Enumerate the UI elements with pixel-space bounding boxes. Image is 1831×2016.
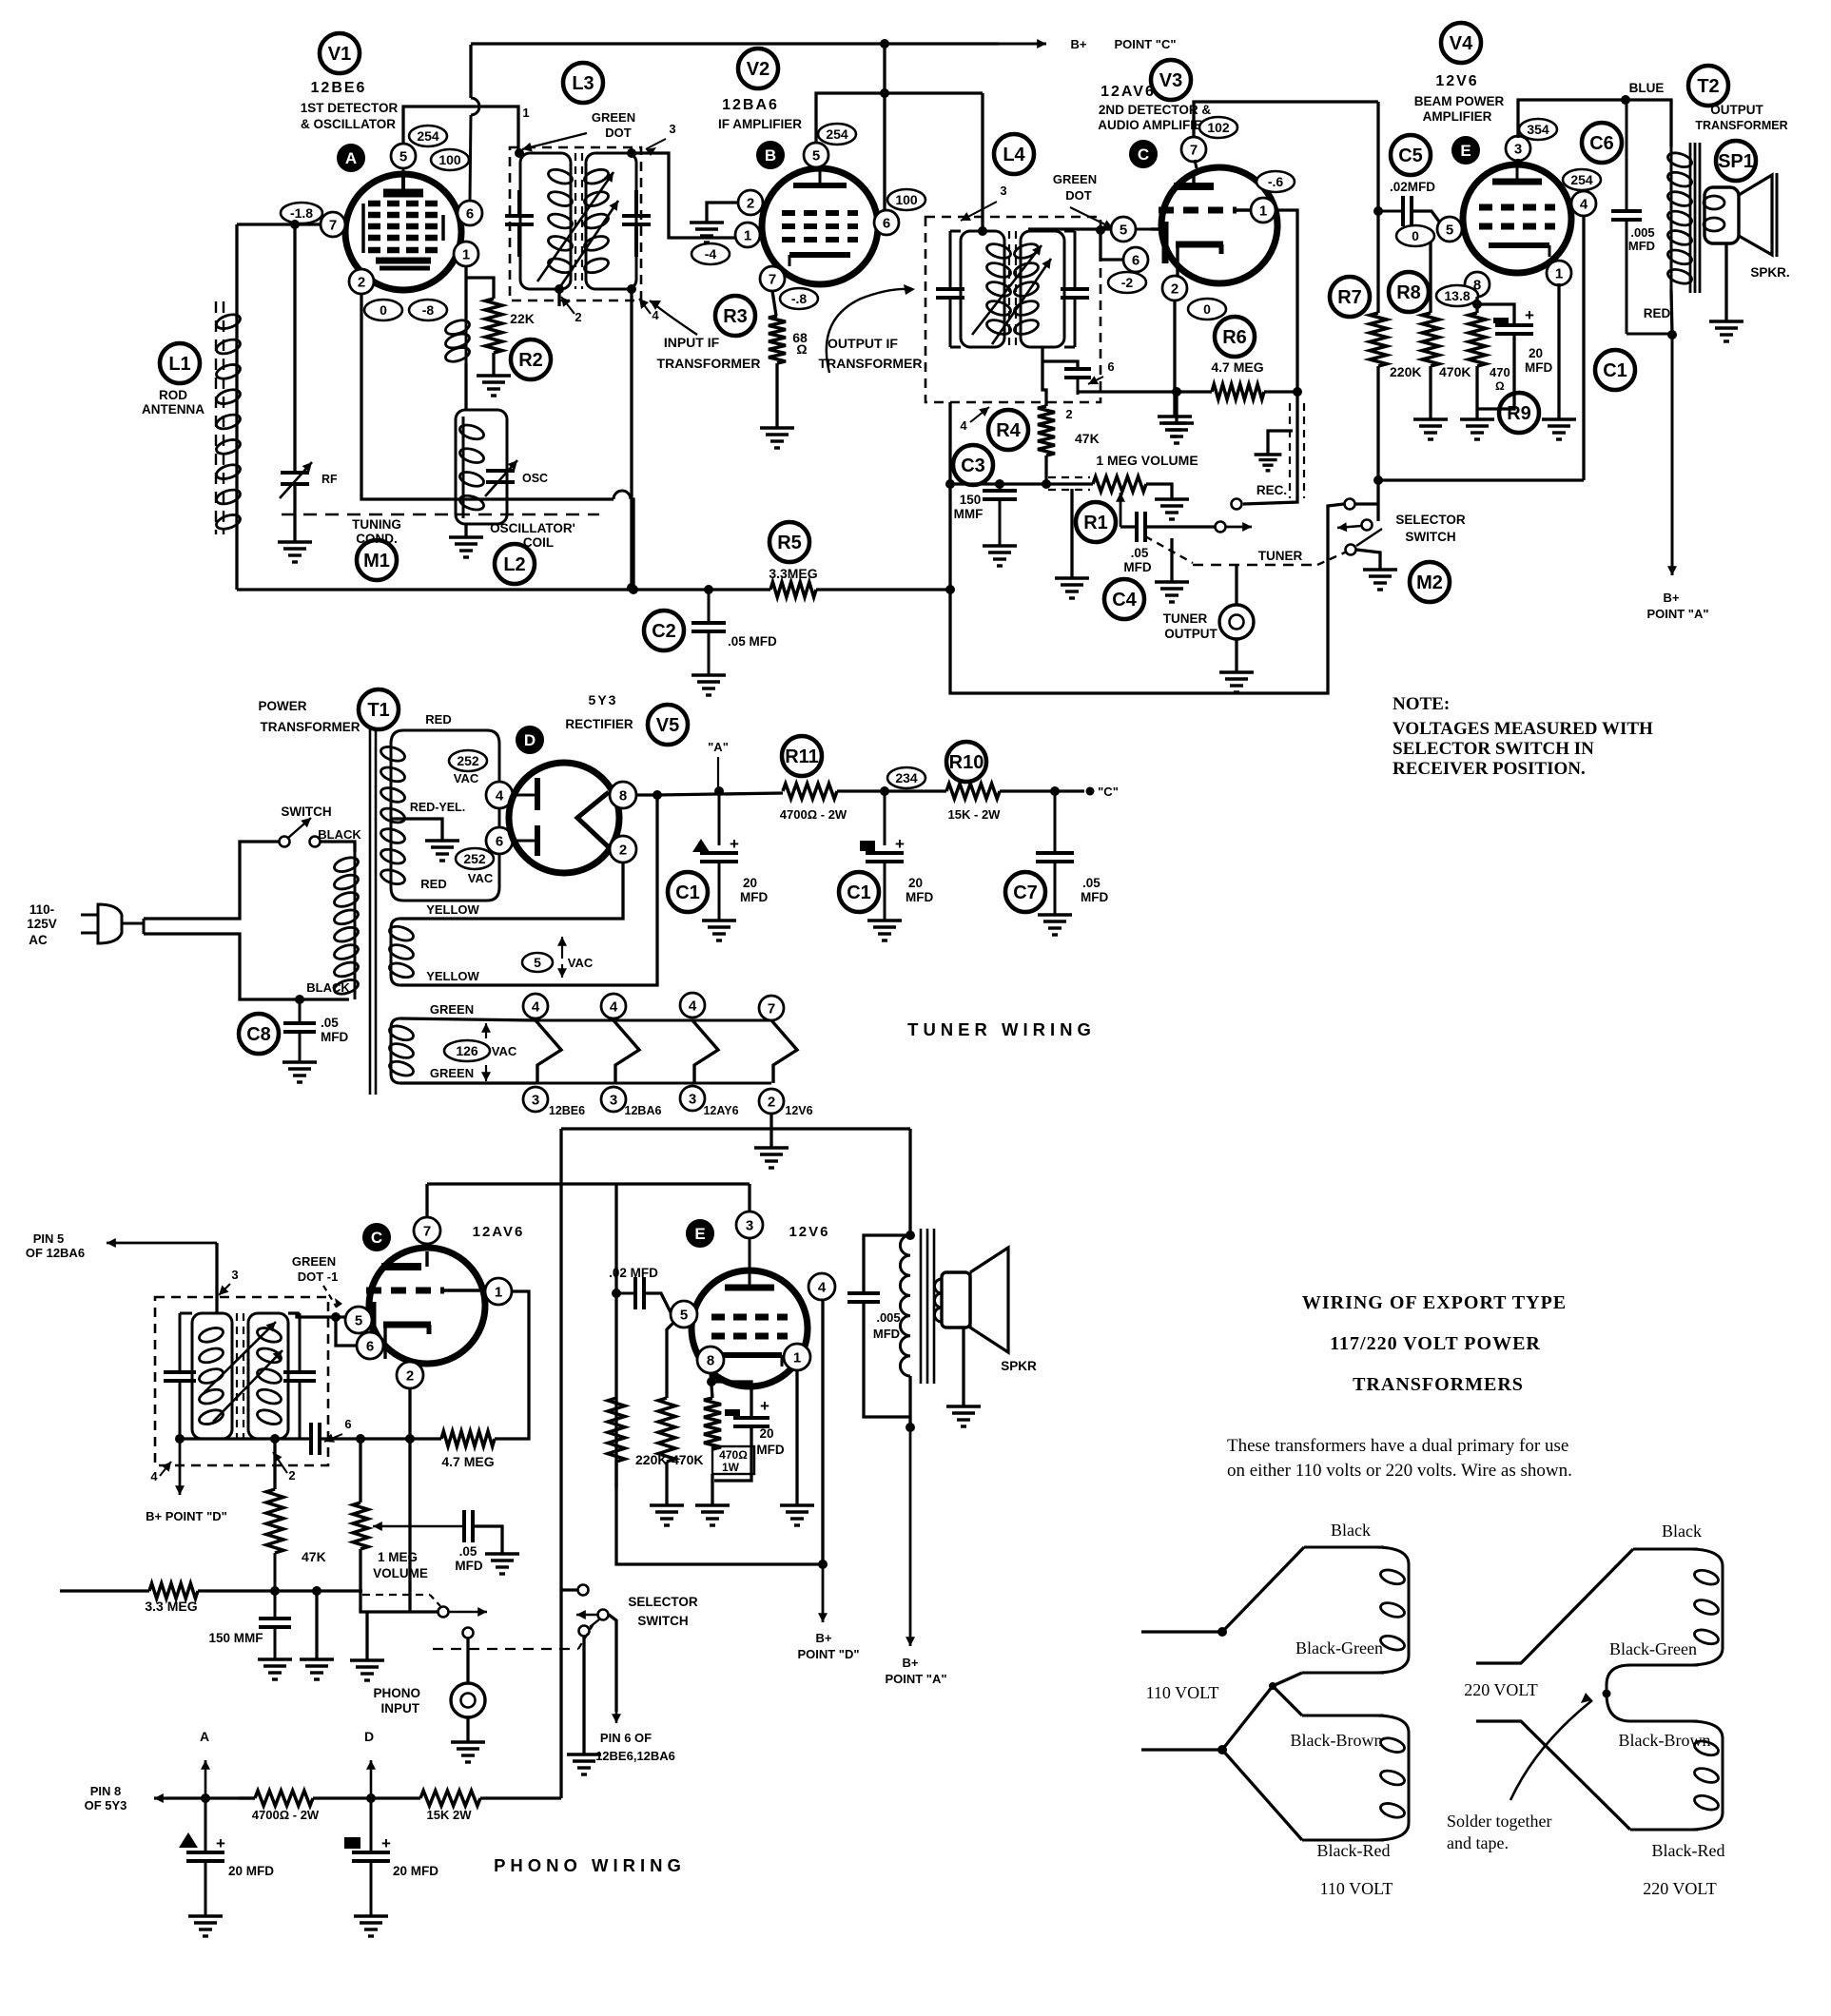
ground below C8 — [282, 1062, 317, 1082]
wire blue down — [1666, 100, 1671, 146]
svg-text:470Ω: 470Ω — [719, 1448, 748, 1462]
wire yellow bottom — [400, 795, 657, 985]
svg-text:5: 5 — [1120, 222, 1127, 238]
wire 3.3MEG to pot — [198, 1589, 362, 1592]
tube phono 12AV6 — [359, 1248, 485, 1364]
tube phono 12V6 — [691, 1270, 808, 1386]
arrow 3 phono IF — [219, 1284, 230, 1295]
svg-text:C3: C3 — [961, 456, 985, 476]
label and tape — [1447, 1833, 1509, 1852]
label 3.3 MEG phono — [145, 1599, 197, 1614]
wire cathode to osc coil — [464, 363, 467, 410]
label Black-Brown right — [1619, 1731, 1711, 1750]
svg-text:110 VOLT: 110 VOLT — [1320, 1879, 1393, 1898]
svg-text:12BA6: 12BA6 — [722, 97, 779, 113]
tube V4 label — [1441, 23, 1481, 63]
point C dot — [1086, 787, 1094, 795]
pin 2 of V5 — [610, 836, 636, 863]
svg-text:V5: V5 — [656, 715, 679, 736]
svg-text:6: 6 — [366, 1338, 374, 1354]
svg-text:OUTPUT IF: OUTPUT IF — [828, 336, 898, 351]
capacitor C1a — [700, 791, 738, 921]
coil T1 yellow box — [391, 919, 400, 985]
voltage 254 at V4 — [1563, 169, 1601, 190]
wire phono pin3 stub — [748, 1184, 750, 1271]
voltage -.8 at V2 — [780, 288, 818, 309]
label VAC top — [454, 771, 479, 785]
svg-text:252: 252 — [463, 851, 486, 866]
wire phono opt top — [908, 1129, 911, 1235]
svg-text:6: 6 — [466, 205, 474, 222]
voltage 252 bottom — [456, 848, 494, 869]
svg-text:2: 2 — [358, 274, 365, 290]
svg-text:M1: M1 — [363, 551, 390, 572]
capacitor R1 .05MFD — [1137, 512, 1145, 542]
junction phono B+ D — [819, 1560, 828, 1569]
svg-text:7: 7 — [329, 217, 337, 233]
label TUNER — [1258, 549, 1303, 563]
junction on B+ bus — [881, 40, 889, 48]
pin 4 heater 12BA6 — [601, 994, 626, 1018]
svg-text:Black-Red: Black-Red — [1652, 1841, 1725, 1860]
capacitor L3 secondary — [622, 190, 651, 257]
label Solder together — [1447, 1812, 1551, 1831]
arrow green dot L3 — [522, 133, 587, 152]
ground center tap — [425, 841, 459, 861]
arrow L4 tuning 2 — [992, 259, 1051, 344]
heater 12BE6 — [536, 1020, 561, 1083]
plug 110V — [81, 904, 144, 943]
svg-text:R4: R4 — [996, 420, 1021, 441]
capacitor phono .005MFD — [847, 1235, 910, 1417]
label 12AV6 phono — [473, 1224, 525, 1240]
resistor R3 68 ohm — [769, 316, 786, 363]
label 2 phono — [288, 1468, 295, 1483]
svg-text:150: 150 — [960, 493, 982, 507]
resistor R4 label — [988, 410, 1028, 450]
svg-text:SELECTOR: SELECTOR — [1395, 513, 1466, 527]
wire yellow top — [400, 863, 623, 919]
speaker phono frame — [942, 1272, 970, 1328]
wire R9 top — [1475, 297, 1478, 313]
coil phono IF secondary — [256, 1326, 283, 1427]
svg-text:TUNER: TUNER — [1163, 611, 1208, 626]
label B+ phono D — [797, 1631, 859, 1661]
export winding 1 bottom lead — [1302, 1672, 1384, 1675]
svg-text:Black: Black — [1662, 1522, 1702, 1541]
svg-text:YELLOW: YELLOW — [426, 902, 479, 917]
svg-text:L4: L4 — [1003, 145, 1025, 165]
resistor R6 4.7MEG — [1212, 384, 1264, 399]
svg-text:102: 102 — [1207, 120, 1230, 135]
svg-text:+: + — [1525, 306, 1534, 324]
svg-text:MFD: MFD — [1123, 560, 1151, 574]
svg-text:3: 3 — [532, 1092, 539, 1108]
junction rail 745 — [705, 586, 713, 594]
svg-text:OUTPUT: OUTPUT — [1164, 627, 1217, 641]
svg-text:12V6: 12V6 — [789, 1224, 829, 1240]
svg-text:VOLTAGES MEASURED WITH: VOLTAGES MEASURED WITH — [1393, 719, 1653, 739]
svg-text:L1: L1 — [168, 354, 190, 375]
pin 4 of V4 — [1571, 191, 1596, 216]
wire rail to tuner branch — [950, 504, 1344, 693]
svg-text:MFD: MFD — [906, 890, 933, 904]
resistor R10 15K — [946, 784, 1000, 799]
label SPKR. — [1750, 265, 1789, 280]
svg-text:C4: C4 — [1112, 590, 1137, 611]
label plus phono cap — [760, 1397, 769, 1415]
coil L3 label — [563, 63, 603, 103]
arrow 5vac down — [557, 964, 567, 978]
speaker coil loops — [1704, 196, 1724, 231]
wire L4 primary top — [981, 93, 984, 231]
svg-text:20 MFD: 20 MFD — [228, 1864, 274, 1878]
svg-text:1: 1 — [495, 1284, 502, 1300]
junction C1a — [715, 787, 724, 796]
svg-text:20: 20 — [908, 876, 923, 890]
capacitor C7 label — [1005, 872, 1045, 912]
svg-text:MFD: MFD — [455, 1559, 482, 1573]
pin 8 of phono 12V6 — [697, 1347, 724, 1373]
ground below R3 — [760, 428, 794, 448]
node D marker — [516, 727, 543, 753]
wire AVC rail — [237, 588, 770, 591]
arrow phono IF tuning 1 — [205, 1322, 276, 1392]
svg-text:PIN 8: PIN 8 — [90, 1784, 122, 1798]
wire 110 bottom diagonal — [1141, 1750, 1302, 1840]
svg-text:DOT -1: DOT -1 — [298, 1270, 339, 1284]
ground REC shield — [1255, 455, 1282, 471]
svg-text:5: 5 — [534, 955, 541, 970]
svg-text:1: 1 — [462, 246, 470, 262]
svg-text:C6: C6 — [1589, 133, 1614, 154]
arrow selector wiper — [1337, 522, 1361, 532]
svg-text:-.8: -.8 — [791, 291, 808, 306]
svg-text:AMPLIFIER: AMPLIFIER — [1423, 109, 1492, 124]
voltage 100 at V1 pin6 — [431, 149, 469, 170]
svg-text:-.6: -.6 — [1268, 174, 1284, 189]
label 470 ohm box — [712, 1446, 754, 1474]
pin 4 heater 12BE6 — [523, 994, 548, 1018]
wire volume line — [950, 482, 1093, 485]
wire speaker to ground — [1724, 243, 1727, 321]
wire pin2 to rail — [631, 499, 633, 588]
wire selector feed — [1355, 502, 1378, 505]
label 4.7 MEG — [1211, 359, 1263, 375]
junction rail left — [946, 480, 955, 489]
label AMPLIFIER V4 — [1423, 109, 1492, 124]
svg-text:3: 3 — [1000, 184, 1006, 198]
ground below C7 — [1038, 915, 1072, 935]
arrow D marker — [366, 1760, 376, 1798]
label .02 MFD phono — [609, 1266, 658, 1280]
pin 2 of phono 12AV6 — [397, 1362, 423, 1388]
svg-text:2: 2 — [1065, 407, 1072, 421]
svg-text:L2: L2 — [503, 554, 525, 575]
wire tuner jack — [1235, 565, 1237, 605]
junction L4 primary top — [979, 227, 987, 236]
label 2ND DETECTOR & — [1099, 103, 1212, 117]
wire T2 primary bottom — [1671, 290, 1672, 335]
wire V1 pin1 down — [464, 266, 467, 319]
label SWITCH — [281, 804, 331, 819]
pin 3 heater 12BA6 — [601, 1087, 626, 1112]
wire wiper to R1 cap — [1120, 525, 1137, 528]
wire hop over — [614, 491, 631, 499]
svg-text:8: 8 — [619, 787, 627, 804]
wire R3 to ground — [775, 363, 778, 428]
svg-text:MFD: MFD — [873, 1327, 900, 1341]
wire 220 lead bottom — [1476, 1721, 1630, 1830]
svg-text:D: D — [364, 1729, 374, 1744]
tube V4 12V6 — [1463, 165, 1571, 273]
arrow L3 tuning 1 — [537, 172, 614, 281]
resistor R9 470 ohm — [1469, 313, 1486, 366]
tube V5 label — [648, 705, 688, 745]
wire phono B rail — [238, 1796, 255, 1799]
junction 150MMF — [271, 1587, 280, 1596]
svg-text:4: 4 — [652, 308, 659, 322]
voltage 13.8 at V4 — [1436, 285, 1478, 306]
label 20 MFD phono — [756, 1426, 784, 1457]
svg-text:1 MEG VOLUME: 1 MEG VOLUME — [1096, 453, 1198, 468]
svg-text:BEAM POWER: BEAM POWER — [1414, 94, 1505, 108]
label PIN 6 OF — [600, 1731, 652, 1745]
label Black-Red left — [1317, 1841, 1391, 1860]
arrow output IF — [827, 284, 915, 373]
svg-text:TUNER: TUNER — [1258, 549, 1303, 563]
label 220 VOLT right — [1464, 1680, 1538, 1699]
svg-text:YELLOW: YELLOW — [426, 969, 479, 983]
wire RF trimmer to ground — [293, 484, 296, 542]
wire V3 pin6 tie — [1101, 231, 1123, 260]
heater 12BA6 — [614, 1020, 639, 1083]
label 22K — [510, 311, 535, 326]
pin 5 of phono 12V6 — [671, 1301, 697, 1328]
svg-text:2: 2 — [288, 1468, 295, 1483]
svg-text:C8: C8 — [246, 1024, 271, 1045]
tube L1 label — [160, 343, 200, 383]
svg-text:220 VOLT: 220 VOLT — [1643, 1879, 1717, 1898]
svg-text:254: 254 — [1570, 172, 1593, 187]
ground below 150MMF — [258, 1659, 292, 1679]
wire V4 pin1 to ground — [1557, 283, 1560, 419]
svg-text:Ω: Ω — [1495, 379, 1505, 393]
arrow B+ point C — [999, 39, 1046, 48]
label B+ POINT C — [1071, 37, 1177, 51]
label PHONO INPUT — [373, 1686, 420, 1716]
junction R4 volume — [1042, 480, 1051, 489]
capacitor C3 label — [953, 445, 993, 485]
junction L4 secondary top — [1097, 226, 1105, 235]
wire stem upper ground — [1175, 392, 1178, 423]
arrow wiper line — [1226, 522, 1252, 532]
svg-text:470K: 470K — [1439, 364, 1471, 379]
svg-text:12AV6: 12AV6 — [1101, 84, 1156, 100]
label 4.7MEG phono — [441, 1454, 494, 1469]
svg-text:254: 254 — [417, 128, 439, 144]
svg-text:INPUT IF: INPUT IF — [664, 335, 720, 350]
wire HV center tap — [391, 819, 442, 841]
voltage 252 top — [449, 750, 487, 771]
label Black-Green left — [1295, 1638, 1383, 1657]
svg-text:20: 20 — [1529, 346, 1543, 360]
svg-text:1ST DETECTOR: 1ST DETECTOR — [301, 101, 399, 115]
wire 15K to selector — [480, 1796, 561, 1799]
svg-text:C1: C1 — [847, 882, 871, 903]
label TUNER WIRING — [907, 1019, 1096, 1039]
junction pin8 A node — [653, 791, 662, 800]
coil L4 secondary outline — [1021, 231, 1064, 347]
svg-text:B+ POINT "D": B+ POINT "D" — [146, 1509, 227, 1523]
wire phono sel vertical — [559, 1129, 562, 1798]
label 110 VOLT left — [1146, 1683, 1219, 1702]
svg-text:8: 8 — [707, 1352, 714, 1368]
label TUNER OUTPUT — [1163, 611, 1218, 641]
arrow pin8 5Y3 — [154, 1793, 238, 1803]
wire L3 secondary bottom to AVC rail — [630, 289, 633, 588]
note text — [1393, 694, 1653, 779]
arrow 2 phono — [273, 1452, 287, 1473]
label 20 MFD D — [393, 1864, 438, 1878]
terminal selector bottom — [1346, 545, 1356, 555]
marker square C1b — [860, 841, 875, 851]
wire pot top — [359, 1439, 361, 1502]
capacitor C6 label — [1582, 123, 1622, 163]
pin 3 of V4 — [1506, 136, 1530, 166]
wire heater to ground — [769, 1114, 772, 1148]
svg-text:1: 1 — [744, 227, 751, 243]
label TRANSFORMER input — [657, 356, 761, 371]
label 220 VOLT caption — [1643, 1879, 1717, 1898]
label plus D cap — [381, 1834, 391, 1852]
label .005 MFD — [1628, 225, 1655, 253]
svg-text:1: 1 — [793, 1349, 801, 1366]
svg-text:1: 1 — [522, 106, 529, 120]
coil L3 primary loops — [547, 167, 575, 276]
export winding 4 top lead — [1607, 1694, 1698, 1721]
label 1 at L3 — [522, 106, 529, 120]
label IF AMPLIFIER — [718, 117, 802, 131]
label B+ point A — [1646, 591, 1708, 621]
coil L4 secondary loops — [1013, 242, 1041, 337]
node C marker — [1130, 141, 1157, 167]
speaker phono bumps — [935, 1279, 943, 1322]
label GREEN top — [430, 1002, 474, 1017]
pin 8 of V5 — [610, 782, 636, 808]
arrow 5vac up — [557, 937, 567, 959]
export winding 2 top lead — [1302, 1715, 1384, 1717]
label 6 at L4 — [1107, 359, 1114, 374]
arrow input IF — [650, 300, 697, 335]
capacitor C1a label — [668, 872, 708, 912]
terminal selector mid — [1362, 520, 1373, 531]
pin 3 heater 12BE6 — [523, 1087, 548, 1112]
pin 5 of V2 — [804, 143, 828, 167]
svg-text:OF 5Y3: OF 5Y3 — [85, 1798, 127, 1812]
wire phono pin4 down — [821, 1300, 824, 1564]
svg-text:D: D — [524, 731, 536, 749]
switch contact right — [310, 837, 321, 847]
svg-text:REC.: REC. — [1256, 483, 1287, 497]
svg-text:TRANSFORMER: TRANSFORMER — [657, 356, 761, 371]
svg-text:-1.8: -1.8 — [290, 205, 313, 221]
pin 3 of phono 12V6 — [736, 1212, 763, 1238]
shield dashes volume wire — [1048, 477, 1090, 490]
capacitor 6 phono series — [311, 1423, 320, 1455]
pin 3 heater 12AV6 — [680, 1086, 705, 1111]
wire R4 bottom — [1044, 456, 1047, 484]
junction L3 primary top — [516, 149, 524, 158]
label 20MFD C1a — [740, 876, 768, 904]
ground below R9 — [1460, 419, 1494, 439]
dashed tuner line — [1145, 536, 1347, 565]
svg-text:R3: R3 — [723, 306, 748, 327]
ground below C1a — [702, 921, 736, 940]
capacitor L4 primary — [936, 231, 964, 347]
pin 7 heater 12V6 — [759, 996, 784, 1020]
pin 7 of phono 12AV6 — [414, 1217, 440, 1249]
svg-text:47K: 47K — [302, 1549, 326, 1564]
voltage 254 at V2 — [818, 124, 856, 145]
svg-text:GREEN: GREEN — [430, 1066, 474, 1080]
voltage 0 at V3 pin2 — [1188, 299, 1226, 320]
junction 110 bottom — [1218, 1746, 1227, 1754]
svg-text:C5: C5 — [1398, 145, 1423, 166]
label B+ phono A — [885, 1656, 946, 1686]
label Black-Red right — [1652, 1841, 1725, 1860]
svg-text:7: 7 — [423, 1223, 431, 1239]
svg-text:4: 4 — [150, 1469, 158, 1483]
label 4 at L3 — [652, 308, 659, 322]
label TRANSFORMER output — [819, 356, 923, 371]
coil L4 label — [994, 134, 1034, 174]
arrow 3 L4 — [961, 202, 997, 221]
svg-text:R6: R6 — [1222, 327, 1247, 348]
export winding 4 — [1688, 1721, 1723, 1830]
voltage -2 at V3 — [1108, 272, 1146, 293]
svg-text:.05: .05 — [321, 1016, 339, 1030]
wire V3 pin7 to R7 rail — [1194, 102, 1378, 137]
pin 1 of V1 — [454, 242, 478, 266]
svg-text:12AV6: 12AV6 — [473, 1224, 525, 1240]
resistor R5 label — [769, 522, 809, 562]
svg-text:0: 0 — [380, 302, 387, 318]
label GREEN bottom — [430, 1066, 474, 1080]
label .05 MFD C2 — [728, 634, 777, 649]
label .02MFD — [1390, 180, 1435, 194]
junction B+ drop — [881, 89, 889, 98]
junction pin2 wire — [406, 1435, 415, 1444]
pin 4 of V5 — [486, 782, 513, 808]
resistor phono 3.3MEG — [149, 1583, 198, 1599]
dashed phono wiper link — [362, 1595, 440, 1606]
svg-text:4700Ω - 2W: 4700Ω - 2W — [252, 1808, 320, 1822]
wire ground left C4 stem — [1070, 489, 1073, 578]
terminal phono sel mid — [598, 1610, 609, 1620]
svg-text:T2: T2 — [1697, 76, 1719, 97]
label AUDIO AMPLIFIER — [1098, 118, 1212, 132]
tube V3 12AV6 — [1151, 167, 1277, 283]
svg-text:125V: 125V — [27, 917, 57, 931]
svg-text:4.7 MEG: 4.7 MEG — [1211, 359, 1263, 375]
label dual primary text2 — [1227, 1461, 1572, 1481]
arrow 6 L4 — [1088, 376, 1103, 384]
tube V2 label — [738, 48, 778, 88]
svg-text:POWER: POWER — [258, 699, 306, 713]
junction C1b node — [881, 787, 889, 796]
capacitor phono .02MFD — [616, 1277, 671, 1312]
